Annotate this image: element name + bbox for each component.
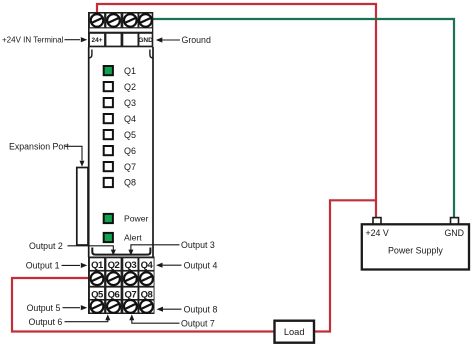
svg-text:GND: GND (138, 37, 153, 44)
svg-text:Alert: Alert (124, 233, 142, 243)
svg-text:Q2: Q2 (124, 82, 136, 92)
svg-text:+24V IN Terminal: +24V IN Terminal (2, 35, 64, 44)
svg-text:Q8: Q8 (124, 178, 136, 188)
svg-text:24+: 24+ (91, 37, 102, 44)
svg-text:Q4: Q4 (124, 114, 136, 124)
svg-text:Output 4: Output 4 (184, 260, 218, 270)
svg-text:Q5: Q5 (91, 289, 104, 300)
svg-text:Output 7: Output 7 (181, 319, 215, 329)
svg-text:Output 3: Output 3 (181, 240, 215, 250)
svg-text:Output 6: Output 6 (29, 317, 63, 327)
svg-text:Q6: Q6 (124, 146, 136, 156)
svg-text:Power Supply: Power Supply (388, 246, 443, 256)
svg-text:Q6: Q6 (108, 289, 120, 300)
svg-text:Output 5: Output 5 (27, 303, 61, 313)
svg-text:Output 8: Output 8 (184, 304, 218, 314)
svg-text:Output 2: Output 2 (29, 241, 63, 251)
svg-text:Expansion Port: Expansion Port (9, 142, 69, 152)
svg-text:GND: GND (444, 228, 464, 238)
svg-text:Q8: Q8 (141, 289, 153, 300)
svg-text:Q3: Q3 (125, 260, 137, 271)
svg-text:Q2: Q2 (108, 260, 120, 271)
svg-text:+24 V: +24 V (366, 228, 389, 238)
svg-text:Ground: Ground (182, 35, 211, 45)
svg-text:Q5: Q5 (124, 130, 136, 140)
svg-text:Q7: Q7 (124, 162, 136, 172)
svg-text:Q4: Q4 (141, 260, 154, 271)
svg-text:Q1: Q1 (124, 66, 136, 76)
svg-text:Q7: Q7 (125, 289, 137, 300)
svg-text:Q1: Q1 (91, 260, 104, 271)
svg-text:Q3: Q3 (124, 98, 136, 108)
svg-text:Load: Load (284, 327, 305, 337)
svg-text:Power: Power (124, 214, 148, 224)
svg-text:Output 1: Output 1 (26, 261, 60, 271)
